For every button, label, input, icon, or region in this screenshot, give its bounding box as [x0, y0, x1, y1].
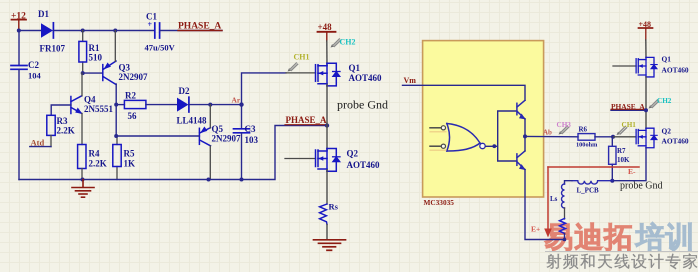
power +48 right [639, 20, 653, 40]
svg-text:Q2: Q2 [347, 149, 359, 159]
resistor R2 [124, 91, 145, 122]
svg-text:L_PCB: L_PCB [577, 187, 600, 195]
node R7 bottom [610, 179, 614, 183]
svg-text:E+: E+ [531, 225, 540, 234]
svg-text:Q2: Q2 [662, 127, 672, 136]
wire C1 to PHASE_A [160, 30, 222, 32]
svg-text:CH1: CH1 [294, 53, 310, 62]
svg-text:Ar: Ar [232, 96, 241, 105]
net label Atd with wire [30, 138, 51, 148]
transistor T2 bottom npn [517, 151, 525, 170]
wire Q4 emitter down to R4 [81, 114, 83, 145]
node R1 top [81, 29, 85, 33]
resistor Rs zigzag [320, 202, 339, 225]
svg-text:100ohm: 100ohm [576, 141, 598, 148]
svg-text:1K: 1K [124, 159, 136, 169]
transistor Q5 2N2907 [199, 124, 241, 146]
svg-text:R5: R5 [124, 149, 135, 159]
wire bottom rail [19, 126, 327, 180]
wire totem pole vertical [525, 119, 565, 240]
node R4 / ground [81, 178, 85, 182]
svg-text:Q3: Q3 [119, 63, 131, 73]
pin R3 bottom [50, 135, 52, 146]
wire Q2 right source down [612, 148, 646, 181]
node R1 bottom / Q3 base / Q4 collector [81, 71, 85, 75]
watermark title peixun [636, 222, 664, 250]
resistor R6 [576, 126, 598, 149]
node Q3 emitter top [113, 29, 117, 33]
diode D2 LL4148 [177, 86, 208, 126]
svg-text:56: 56 [128, 111, 138, 121]
capacitor C2 [11, 60, 42, 81]
node C3 rail [240, 178, 244, 182]
wire Q1 right source down [645, 77, 647, 129]
wire L_PCB to Ls [565, 181, 573, 184]
wire Rs to ground [326, 225, 328, 240]
wire Q5 emitter up [209, 105, 211, 128]
svg-text:AOT460: AOT460 [349, 73, 383, 83]
pin Q2 gate stub [285, 158, 316, 160]
svg-text:510: 510 [89, 53, 103, 63]
resistor R5 [113, 136, 135, 180]
power +48 left [318, 22, 336, 41]
wire Q1 source down [326, 84, 328, 125]
node R6/R7/gate [611, 135, 615, 139]
svg-text:C2: C2 [28, 60, 39, 70]
gate input stub 1 [430, 126, 446, 132]
svg-text:Atd: Atd [31, 138, 45, 148]
svg-text:R2: R2 [125, 91, 136, 101]
svg-text:AOT460: AOT460 [662, 66, 689, 75]
pin Q2 gate right [613, 136, 635, 138]
svg-text:R1: R1 [89, 43, 100, 53]
gate input stub 2 [430, 144, 446, 150]
wire Q2 source down to Rs [326, 170, 328, 204]
wire gate output to bases [486, 111, 517, 161]
wire C2 branch upper [18, 31, 20, 66]
svg-text:2N2907: 2N2907 [119, 72, 148, 82]
wire Q4 base left [51, 105, 71, 115]
node PHASE_A junction [325, 123, 329, 127]
watermark subtitle [547, 254, 562, 269]
svg-text:probe Gnd: probe Gnd [620, 181, 663, 192]
svg-text:AOT460: AOT460 [347, 160, 381, 170]
wire Ar node down to C3 [241, 105, 243, 129]
svg-text:104: 104 [28, 71, 42, 81]
wire R2 to D2 [146, 104, 177, 106]
wire left vertical to bottom rail [18, 70, 20, 180]
svg-text:2N5551: 2N5551 [84, 104, 113, 114]
mosfet Q1 right AOT460 [636, 55, 689, 77]
diode D1 [38, 9, 65, 54]
wire Ls down [564, 208, 566, 219]
wire node to R2 [116, 104, 124, 106]
wire top rail D1 to C1 [53, 30, 154, 32]
svg-text:2.2K: 2.2K [57, 126, 75, 136]
wire Q3 collector down [115, 84, 117, 136]
svg-text:C3: C3 [245, 124, 256, 134]
svg-text:FR107: FR107 [40, 44, 66, 54]
node output [523, 134, 527, 138]
watermark [545, 222, 698, 269]
transistor Q3 2N2907 [103, 61, 148, 85]
pin Q1 drain wire [326, 41, 328, 66]
mosfet Q1 AOT460 [316, 63, 383, 86]
svg-text:D1: D1 [38, 9, 49, 19]
wire R6 to node [595, 136, 613, 138]
svg-text:47u/50V: 47u/50V [145, 43, 176, 53]
transistor Q4 2N5551 [71, 95, 114, 115]
svg-text:2.2K: 2.2K [89, 159, 107, 169]
wire top rail [19, 30, 41, 32]
wire Ar node up to Q1 gate [242, 73, 287, 105]
svg-text:Q1: Q1 [349, 63, 361, 73]
inductor L_PCB [572, 181, 612, 195]
node sense loop bottom [563, 238, 567, 242]
svg-text:E-: E- [628, 167, 636, 176]
wire Vm to top transistor collector [403, 85, 526, 100]
svg-text:103: 103 [245, 135, 259, 145]
svg-text:CH2: CH2 [340, 38, 356, 47]
inductor Ls [550, 184, 565, 208]
nor gate U1 [447, 124, 485, 152]
svg-text:PHASE_A: PHASE_A [611, 102, 645, 111]
wire Q5 base [116, 135, 199, 137]
wire Q3 emitter up [114, 31, 116, 62]
svg-text:Q4: Q4 [84, 95, 96, 105]
svg-text:probe Gnd: probe Gnd [337, 98, 388, 112]
node Q5 collector rail [207, 178, 211, 182]
node PHASE_A right [644, 108, 648, 112]
node junction +12/D1 [17, 29, 21, 33]
net label PHASE_A lower [285, 115, 327, 125]
svg-text:R6: R6 [579, 126, 588, 134]
probe CH1 right [617, 121, 637, 135]
ground mid-left [72, 180, 94, 198]
svg-text:10K: 10K [617, 156, 630, 164]
svg-text:Ls: Ls [550, 195, 558, 203]
probe CH3 [557, 121, 572, 135]
svg-text:PHASE_A: PHASE_A [286, 115, 328, 125]
node base wire Q5 [114, 134, 118, 138]
mosfet Q2 right AOT460 [636, 127, 689, 148]
resistor Rs2 zigzag [560, 219, 566, 234]
pin Q1 right gate stub [613, 65, 636, 67]
red annotation E+ arrow [531, 167, 552, 238]
watermark divider line [545, 251, 698, 253]
svg-text:2N2907: 2N2907 [212, 134, 241, 144]
transistor T1 top npn [517, 100, 525, 119]
svg-text:LL4148: LL4148 [177, 116, 208, 126]
node Ar corner [239, 102, 243, 106]
net label PHASE_A top [178, 22, 222, 32]
power +12 [11, 12, 26, 31]
wire D2 to corner [189, 104, 242, 106]
svg-text:D2: D2 [179, 86, 190, 96]
resistor R7 [609, 137, 630, 181]
wire Q5 collector down [209, 146, 211, 180]
capacitor C1 [145, 12, 176, 53]
net label PHASE_A right [611, 102, 646, 111]
svg-text:R7: R7 [617, 147, 626, 155]
svg-text:Q5: Q5 [212, 124, 224, 134]
red annotation E- line [548, 167, 639, 176]
watermark title yiditu [545, 224, 571, 251]
resistor R1 [79, 31, 103, 74]
svg-text:R4: R4 [89, 149, 100, 159]
mosfet Q2 AOT460 [316, 149, 381, 172]
wire R1 bottom to Q3 base [83, 72, 103, 74]
svg-text:CH1: CH1 [622, 121, 637, 129]
svg-text:Vm: Vm [404, 76, 417, 85]
pin Q1 right drain [645, 40, 647, 57]
svg-text:MC33035: MC33035 [424, 198, 455, 207]
resistor R4 [78, 145, 107, 180]
node Q3 collector / R2 [114, 103, 118, 107]
svg-text:Ab: Ab [543, 129, 552, 137]
wire output to R6 [525, 135, 578, 137]
wire Q4 collector up to node [81, 73, 83, 96]
svg-text:R3: R3 [57, 116, 68, 126]
svg-text:Q1: Q1 [662, 55, 672, 64]
wire Rs2 to emitter wire [564, 234, 566, 240]
svg-text:+48: +48 [318, 22, 333, 32]
block MC33035 yellow box [423, 41, 544, 197]
node gate output [492, 144, 496, 148]
probe CH2 left [331, 38, 356, 48]
node Q5 emitter [208, 103, 212, 107]
svg-text:C1: C1 [146, 12, 157, 22]
wire to Q2 drain [326, 126, 328, 151]
probe CH2 right [649, 97, 672, 109]
svg-text:CH2: CH2 [657, 97, 672, 105]
svg-text:AOT460: AOT460 [662, 137, 689, 146]
svg-text:PHASE_A: PHASE_A [178, 22, 221, 32]
ground bottom left-panel [314, 240, 346, 251]
svg-text:Rs: Rs [329, 202, 339, 212]
pin Q1 gate [286, 72, 316, 74]
probe CH1 left [288, 53, 310, 72]
resistor R3 [47, 115, 75, 135]
svg-text:CH3: CH3 [557, 121, 572, 129]
capacitor C3 [234, 124, 259, 180]
